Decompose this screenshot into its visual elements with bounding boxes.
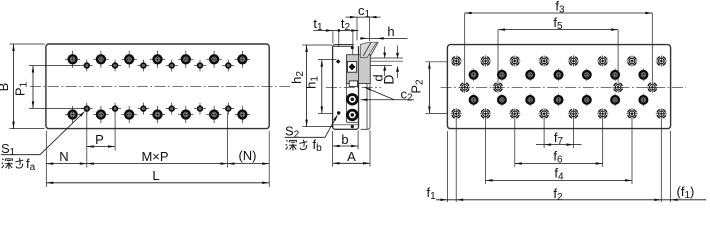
dimension MxP (87, 149, 228, 165)
dimension f5 (498, 15, 618, 82)
middle view gray section block (346, 55, 370, 84)
right view centerline spot-faced holes (459, 82, 658, 93)
dimension c1 (346, 3, 381, 41)
dimension A (333, 149, 370, 165)
middle view hatched rail top piece (360, 42, 378, 57)
dimension f1 left (427, 185, 448, 202)
right view bottom row spot-faced holes (451, 108, 667, 119)
svg-text:M×P: M×P (141, 149, 168, 164)
S2 tap dot (337, 111, 340, 114)
svg-text:A: A (347, 149, 356, 164)
svg-text:(N): (N) (238, 148, 256, 163)
svg-text:D: D (381, 74, 397, 84)
depth fa label (deep-sa fa) (2, 156, 36, 173)
dimension t1 t2 top (313, 16, 358, 48)
right view plate outline (447, 45, 670, 129)
svg-text:L: L (152, 168, 159, 183)
middle view centerline (326, 86, 381, 88)
dimension f3 (465, 0, 653, 82)
middle view body outline (side section) (333, 43, 360, 129)
left view horizontal centerline (30, 86, 292, 88)
middle view roller ball upper (346, 93, 358, 105)
svg-text:b: b (341, 132, 348, 147)
dimension D (381, 46, 400, 85)
middle view roller slot (346, 55, 358, 123)
svg-text:N: N (59, 149, 68, 164)
S2 leader and label (285, 114, 338, 140)
dimension N bottom left (46, 149, 87, 165)
middle view right wall double lines (361, 84, 370, 130)
dimension f4 (486, 119, 633, 184)
middle view t-measuring dot on top face (351, 46, 354, 49)
left view bottom row small tap holes S1 (81, 103, 234, 115)
left view bottom row counterbore screw holes (65, 106, 250, 123)
c2 leader and label (361, 87, 415, 104)
dimension b (333, 132, 359, 147)
left view plate outline (46, 44, 269, 129)
right view top row spot-faced holes (451, 55, 667, 66)
right view lower middle row through holes (469, 94, 649, 107)
S1 tap hole leader and label (1, 111, 86, 158)
dimension (f1) right (671, 184, 695, 201)
dimension d (371, 47, 387, 82)
middle view square nut with diamond (347, 62, 356, 73)
extension lines left view (46, 112, 269, 187)
middle view top chamfer line (334, 45, 353, 55)
dimension h (360, 24, 408, 40)
dimension P1 vertical (13, 66, 84, 109)
extension lines right view bottom (447, 119, 670, 202)
depth fb label (286, 137, 323, 154)
right view upper middle row through holes (469, 68, 649, 81)
svg-text:h: h (387, 24, 394, 39)
left view top row counterbore screw holes (65, 51, 250, 68)
middle view bottom lip line (333, 124, 358, 126)
extension lines middle view bottom (333, 131, 370, 167)
svg-text:B: B (0, 83, 11, 92)
right view centerline (441, 86, 687, 88)
dimension (N) (228, 148, 270, 165)
dimension f7 (536, 119, 582, 148)
middle view diamond point left (336, 59, 341, 64)
dimension L overall length (46, 168, 269, 184)
dimension f6 (515, 119, 603, 167)
dimension h1 (303, 60, 336, 114)
dimension P2 (409, 62, 447, 114)
middle view roller ball lower (346, 109, 358, 121)
dimension B vertical left (0, 44, 45, 129)
dimension f2 (436, 186, 706, 203)
svg-text:P: P (95, 132, 104, 147)
dimension P (87, 132, 115, 148)
middle view small white block below nut (349, 81, 357, 87)
left view top row small tap holes S1 (81, 60, 234, 72)
d D reference lines (370, 58, 403, 66)
middle view bottom dot (351, 125, 354, 128)
dimension h2 (289, 45, 334, 127)
